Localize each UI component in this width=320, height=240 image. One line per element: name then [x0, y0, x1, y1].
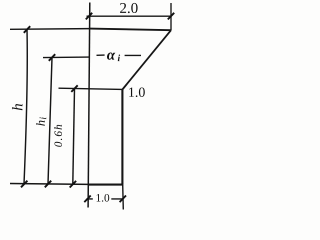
tick: 0.6h dim bottom [70, 181, 76, 188]
extension line: top edge extended left to h dimension [10, 28, 89, 31]
tick: 2.0 dim right [168, 13, 174, 20]
dimension line h (vertical, full height) [24, 29, 27, 184]
label 1.0 (slope run at corner) [129, 87, 145, 97]
tick: h dim bottom [21, 181, 27, 188]
left face of section / vertical extension line (stem left) [88, 3, 90, 208]
extension line: 0.6h level through slope corner [59, 88, 123, 89]
label 2.0 (top width) [120, 3, 138, 13]
extension line: base level extended left [10, 183, 88, 186]
tick: 1.0 dim right [120, 196, 126, 203]
dimension line h_i (vertical) [48, 58, 52, 185]
right face of stem [121, 90, 123, 185]
label alpha_i (slope angle) [107, 53, 120, 62]
dimension line 1.0 (bottom) [87, 198, 124, 200]
bottom edge of stem (width 1.0) [88, 184, 123, 186]
label 0.6h (rotated) [54, 125, 62, 147]
extension line: right, from top-right corner up to 2.0 dimension [170, 3, 172, 30]
white gap under bottom 1.0 text [93, 193, 112, 202]
top edge of section (width 2.0) [89, 29, 171, 31]
dimension line 2.0 [87, 15, 172, 17]
tick: h_i dim top [49, 54, 55, 61]
label h (rotated) [12, 104, 22, 110]
dimension line 0.6h (vertical) [73, 89, 75, 184]
extension line: bottom right, below stem to 1.0 dimension [122, 185, 125, 210]
leader dash right of alpha_i [125, 54, 141, 56]
label h_i (rotated) [36, 117, 46, 126]
label 1.0 (bottom width) [97, 194, 110, 202]
tick: h dim top [24, 26, 30, 33]
sloped face (angle alpha_i) [122, 30, 171, 89]
leader dash left of alpha_i [97, 54, 105, 56]
tick: h_i dim bottom [45, 181, 51, 188]
paper background [0, 0, 183, 214]
tick: 0.6h dim top [71, 85, 77, 92]
extension line: h_i level [43, 56, 89, 59]
tick: 2.0 dim left [86, 13, 92, 20]
tick: 1.0 dim left [84, 196, 90, 203]
tick marks (45-degree slashes) [21, 13, 174, 202]
